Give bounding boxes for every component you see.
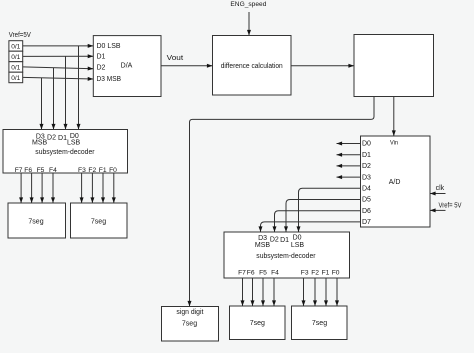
- svg-text:D3: D3: [258, 235, 267, 242]
- svg-text:D1: D1: [58, 135, 67, 142]
- svg-text:LSB: LSB: [67, 139, 81, 146]
- svg-text:D4: D4: [362, 186, 371, 193]
- svg-text:Vin: Vin: [390, 139, 398, 146]
- svg-text:subsystem-decoder: subsystem-decoder: [256, 253, 316, 260]
- svg-text:ENG_speed: ENG_speed: [230, 1, 266, 8]
- svg-text:D0 LSB: D0 LSB: [97, 43, 121, 50]
- svg-text:F5: F5: [37, 167, 45, 174]
- svg-text:Vref= 5V: Vref= 5V: [439, 203, 462, 210]
- svg-text:D5: D5: [362, 197, 371, 204]
- svg-text:MSB: MSB: [32, 139, 48, 146]
- svg-text:D2: D2: [362, 163, 371, 170]
- svg-text:F0: F0: [332, 269, 340, 276]
- svg-text:0/1: 0/1: [11, 75, 20, 82]
- svg-text:A/D: A/D: [389, 179, 401, 186]
- svg-text:subsystem-decoder: subsystem-decoder: [35, 149, 95, 156]
- svg-text:D1: D1: [97, 54, 106, 61]
- svg-text:0/1: 0/1: [11, 43, 20, 50]
- svg-text:F6: F6: [247, 269, 255, 276]
- svg-text:D7: D7: [362, 219, 371, 226]
- svg-text:7seg: 7seg: [182, 321, 197, 328]
- svg-text:F2: F2: [311, 269, 319, 276]
- svg-text:D0: D0: [362, 141, 371, 148]
- svg-text:7seg: 7seg: [312, 320, 327, 327]
- svg-text:F0: F0: [109, 167, 117, 174]
- svg-text:D6: D6: [362, 208, 371, 215]
- svg-text:D2: D2: [97, 65, 106, 72]
- svg-text:F3: F3: [301, 269, 309, 276]
- svg-text:F4: F4: [271, 269, 279, 276]
- svg-text:F7: F7: [238, 269, 246, 276]
- svg-text:Vref=5V: Vref=5V: [9, 32, 31, 39]
- svg-text:D3 MSB: D3 MSB: [97, 76, 122, 83]
- svg-text:F5: F5: [259, 269, 267, 276]
- svg-text:Vout: Vout: [167, 55, 184, 62]
- svg-text:D2: D2: [47, 135, 56, 142]
- svg-text:D0: D0: [293, 235, 302, 242]
- svg-text:sign digit: sign digit: [176, 309, 203, 316]
- svg-text:MSB: MSB: [255, 242, 271, 249]
- svg-text:D1: D1: [362, 152, 371, 159]
- svg-text:D1: D1: [280, 237, 289, 244]
- svg-text:LSB: LSB: [291, 242, 305, 249]
- svg-text:7seg: 7seg: [28, 219, 43, 226]
- svg-text:difference calculation: difference calculation: [221, 63, 283, 70]
- svg-text:D2: D2: [270, 237, 279, 244]
- svg-text:7seg: 7seg: [91, 219, 106, 226]
- svg-text:D/A: D/A: [121, 63, 133, 70]
- svg-text:clk: clk: [436, 185, 445, 192]
- svg-text:0/1: 0/1: [11, 54, 20, 61]
- svg-text:0/1: 0/1: [11, 64, 20, 71]
- svg-text:7seg: 7seg: [250, 320, 265, 327]
- svg-text:D3: D3: [362, 174, 371, 181]
- svg-text:F1: F1: [322, 269, 330, 276]
